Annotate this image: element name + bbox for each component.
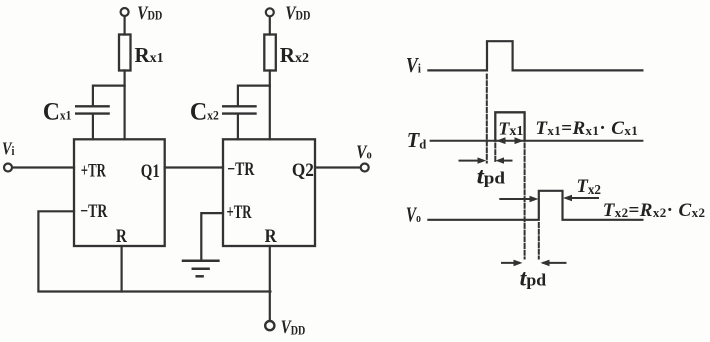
arrowhead tpd1 right [495, 157, 504, 163]
arrowhead Tx2 left [530, 196, 539, 203]
arrowhead Tx2 right [563, 195, 572, 202]
waveform Vo [428, 191, 642, 220]
wire Tx2 right arrow shaft [567, 197, 599, 199]
waveform Td pulse [495, 112, 524, 140]
terminal VDD1 [121, 8, 129, 16]
svg-text:Q1: Q1 [141, 161, 160, 182]
terminal VDD2 [266, 8, 274, 16]
one-shot U1 body [74, 139, 165, 246]
svg-text:Q2: Q2 [292, 160, 314, 181]
terminal Vi [4, 164, 12, 172]
wire Cx2 to Q2 top [237, 115, 239, 140]
node dashed line Vo pulse rise [538, 223, 540, 259]
waveform Td baseline [431, 140, 643, 142]
wire tpd1 left arrow shaft [460, 160, 483, 162]
wire VDD2 to Rx2 [269, 17, 271, 35]
capacitor Cx1 [76, 106, 108, 113]
svg-text:−TR: −TR [80, 201, 107, 222]
terminal Vo [361, 164, 369, 172]
wire tpd2 right arrow shaft [544, 262, 566, 264]
arrowhead Tx1 right [515, 137, 524, 144]
svg-text:+TR: +TR [227, 202, 252, 223]
node dashed line Vi rising edge [486, 75, 488, 163]
node dashed line Td pulse rise [494, 144, 496, 163]
wire U2 +TR to ground [201, 213, 223, 259]
wire Cx1 to Q1 top [92, 115, 94, 140]
wire Q2 output to Vo [315, 166, 360, 168]
svg-text:Vo: Vo [356, 142, 372, 163]
capacitor Cx2 [223, 106, 255, 113]
svg-text:+TR: +TR [81, 161, 106, 182]
svg-text:Tx2=Rx2· Cx2: Tx2=Rx2· Cx2 [603, 200, 706, 221]
wire VDD1 to Rx1 [123, 17, 125, 35]
svg-text:VDD: VDD [137, 4, 162, 24]
svg-text:R: R [265, 226, 277, 247]
svg-text:R: R [116, 226, 127, 247]
wire tpd2 left arrow shaft [502, 262, 519, 264]
wire Rx1 to Q1 top [123, 71, 125, 140]
svg-text:Vi: Vi [406, 53, 421, 77]
svg-text:Tx1: Tx1 [498, 118, 523, 139]
wire Cx2 top branch [238, 86, 270, 106]
svg-text:Cx1: Cx1 [43, 97, 71, 126]
arrowhead tpd2 right [541, 260, 550, 267]
wire Cx1 top branch [93, 86, 125, 106]
svg-text:Cx2: Cx2 [190, 97, 219, 126]
ground [183, 261, 218, 277]
waveform Vi [428, 41, 642, 70]
node dashed line Td pulse fall [524, 144, 526, 259]
svg-text:Vi: Vi [2, 139, 15, 159]
wire U1 -TR feedback [38, 211, 270, 291]
resistor Rx1 [119, 35, 131, 71]
wire tpd1 right arrow shaft [499, 160, 512, 162]
svg-text:tpd: tpd [520, 266, 547, 291]
one-shot U2 body [223, 139, 315, 246]
svg-text:Tx2: Tx2 [577, 176, 602, 197]
arrowhead Tx1 left [496, 137, 505, 144]
svg-text:Td: Td [407, 128, 427, 152]
svg-text:Vo: Vo [406, 203, 421, 227]
wire Q1 output to U2 -TR [165, 166, 223, 168]
arrowhead tpd2 left [514, 260, 523, 267]
svg-text:Rx2: Rx2 [280, 43, 309, 67]
svg-text:VDD: VDD [285, 4, 310, 24]
wire Rx2 to Q2 top [269, 71, 271, 140]
wire U1 R pin [120, 246, 122, 292]
wire Tx2 left arrow shaft [500, 198, 534, 200]
resistor Rx2 [264, 35, 276, 71]
arrowhead tpd1 left [478, 157, 487, 163]
svg-text:Tx1=Rx1· Cx1: Tx1=Rx1· Cx1 [535, 118, 638, 139]
svg-text:tpd: tpd [477, 164, 506, 189]
wire U2 R pin to VDD3 [269, 246, 271, 320]
wire Vi to U1 +TR [12, 166, 74, 168]
svg-text:VDD: VDD [281, 318, 306, 338]
svg-text:−TR: −TR [227, 159, 254, 180]
svg-text:Rx1: Rx1 [135, 43, 164, 67]
terminal VDD3 [265, 321, 274, 330]
